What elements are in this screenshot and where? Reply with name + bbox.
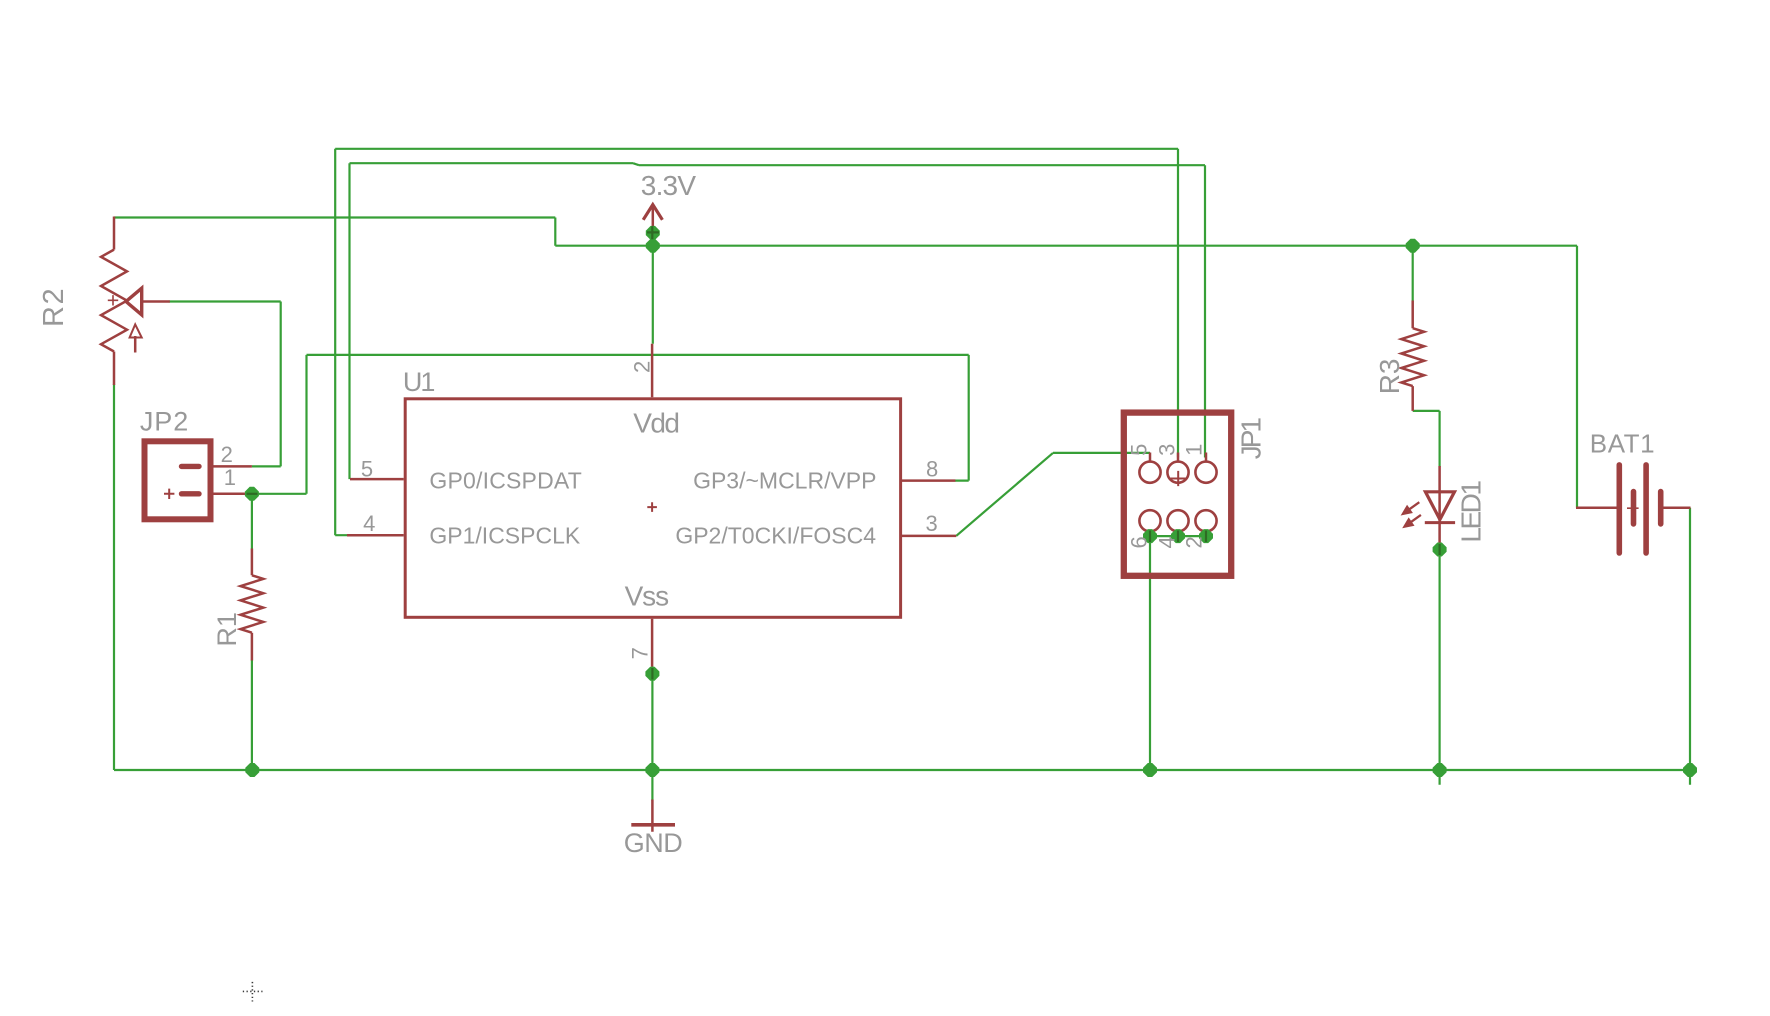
svg-text:GP0/ICSPDAT: GP0/ICSPDAT — [429, 468, 582, 494]
svg-text:GP2/T0CKI/FOSC4: GP2/T0CKI/FOSC4 — [675, 523, 876, 549]
svg-text:U1: U1 — [403, 367, 434, 397]
svg-text:4: 4 — [363, 511, 375, 536]
svg-text:8: 8 — [926, 456, 938, 481]
svg-text:Vss: Vss — [625, 581, 668, 612]
svg-text:3: 3 — [925, 511, 937, 536]
svg-text:JP2: JP2 — [140, 406, 189, 436]
svg-text:GND: GND — [624, 828, 683, 858]
svg-text:R2: R2 — [38, 287, 70, 327]
svg-text:4: 4 — [1154, 536, 1179, 548]
svg-text:GP1/ICSPCLK: GP1/ICSPCLK — [429, 523, 580, 549]
svg-text:1: 1 — [1182, 444, 1207, 456]
svg-text:6: 6 — [1126, 536, 1151, 548]
svg-text:R3: R3 — [1374, 359, 1405, 395]
svg-text:3: 3 — [1154, 444, 1179, 456]
svg-text:1: 1 — [224, 465, 236, 490]
svg-text:2: 2 — [1182, 536, 1207, 548]
svg-text:JP1: JP1 — [1235, 418, 1266, 460]
svg-text:GP3/~MCLR/VPP: GP3/~MCLR/VPP — [693, 468, 876, 494]
svg-text:BAT1: BAT1 — [1590, 428, 1655, 458]
svg-text:2: 2 — [630, 361, 655, 373]
svg-text:5: 5 — [361, 456, 373, 481]
svg-text:LED1: LED1 — [1455, 481, 1486, 543]
svg-text:7: 7 — [628, 647, 653, 659]
svg-text:R1: R1 — [212, 612, 242, 647]
svg-text:Vdd: Vdd — [633, 407, 678, 438]
svg-text:2: 2 — [221, 442, 233, 467]
svg-text:5: 5 — [1126, 444, 1151, 456]
svg-text:3.3V: 3.3V — [641, 170, 697, 201]
